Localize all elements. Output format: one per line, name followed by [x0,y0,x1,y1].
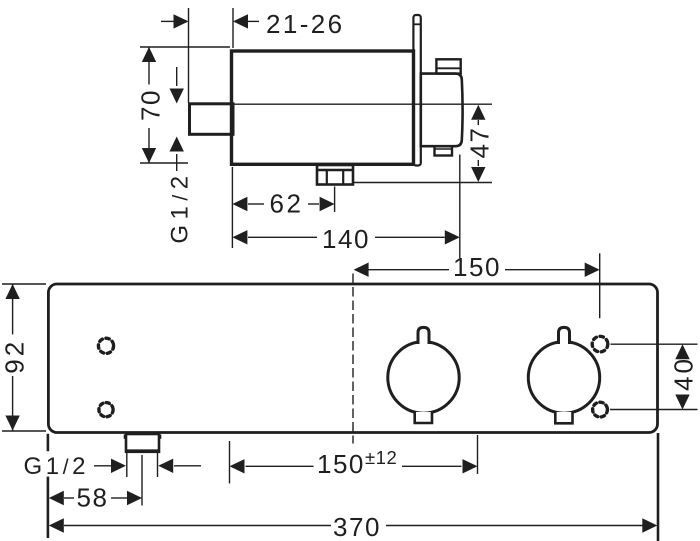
left knob [388,342,459,413]
left extension line below body [47,434,50,451]
right marking hole lower (dashed) [593,402,608,417]
svg-text:40: 40 [669,356,699,391]
svg-text:58: 58 [77,483,109,513]
dimension 58 [64,455,142,506]
axis line through body [233,103,492,105]
svg-text:370: 370 [333,512,381,541]
right knob [528,342,599,413]
svg-text:92: 92 [0,339,29,374]
svg-text:150: 150 [453,252,501,282]
dimension 70 [140,47,230,163]
right marking hole upper (dashed) [592,336,608,352]
G1/2 annotation (front view) [94,452,201,477]
svg-text:21-26: 21-26 [266,9,345,39]
svg-text:±12: ±12 [365,447,397,468]
svg-text:140: 140 [322,224,370,254]
dimension 40 [610,344,698,409]
dimension 21-26 [161,8,259,103]
right extension line below body [657,433,660,541]
svg-text:62: 62 [269,189,303,219]
cartridge top tab [436,59,460,73]
dimension 47 [477,120,479,166]
svg-text:150: 150 [317,449,365,479]
dimension 92 [2,284,46,431]
dimension 370 [64,525,643,527]
dimension 140 [232,155,459,259]
lower extension line (47 bottom) [354,182,493,184]
svg-text:G1/2: G1/2 [24,453,90,480]
valve body (side view) [232,51,414,164]
svg-text:70: 70 [136,89,166,121]
bottom outlet nut (side view) [317,165,353,185]
left G1/2 inlet stub (side view) [190,104,234,135]
G1/2 annotation (side view) [176,67,178,171]
dimension 150 (top of front view) [369,253,600,318]
main body (front view) [48,284,657,433]
wall plate [413,15,420,166]
bottom G1/2 outlet stub (front view) [126,434,159,452]
cartridge main body [421,74,463,147]
svg-text:47: 47 [465,127,495,159]
vertical centerline (dashed) [352,274,354,444]
left screw hole upper (dashed) [98,338,113,353]
dimension 62 [248,187,335,213]
dimension 150±12 [230,435,478,484]
left screw hole lower (dashed) [99,403,113,417]
cartridge bottom tab [435,146,453,155]
svg-text:G1/2: G1/2 [167,170,194,243]
